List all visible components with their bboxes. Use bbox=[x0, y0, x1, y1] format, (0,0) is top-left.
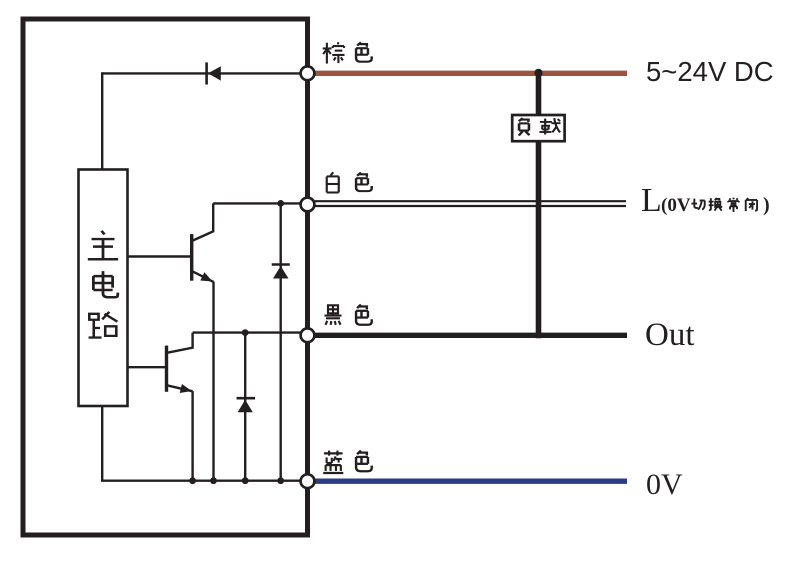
wire: Q1 collector to white terminal bbox=[213, 202, 302, 204]
net label 0V bbox=[646, 468, 683, 501]
label 黑色 (black) bbox=[325, 305, 372, 325]
wire: Q2 emitter column bbox=[191, 391, 193, 481]
label 主电路 (main circuit) bbox=[88, 231, 118, 338]
wire: main circuit to 0V bus bbox=[101, 406, 103, 481]
terminal: white bbox=[301, 198, 315, 212]
label 蓝色 (blue) bbox=[323, 451, 372, 473]
net label 5~24V DC bbox=[646, 56, 774, 87]
wire: Q2 base bbox=[128, 366, 166, 368]
node: bus junction Q1e bbox=[210, 477, 217, 484]
svg-text:(0V: (0V bbox=[661, 195, 691, 216]
wire: 0V bus bbox=[101, 480, 302, 482]
diode D2 bbox=[272, 265, 290, 279]
node: bus junction D3 bbox=[242, 477, 249, 484]
node: load tap on brown wire bbox=[534, 69, 542, 77]
wire: V+ down-leg to main circuit bbox=[101, 72, 103, 169]
wire: Q2 collector to black terminal bbox=[193, 331, 302, 333]
net label Out bbox=[645, 317, 695, 353]
wire: D3 column (black rail to 0V bus) bbox=[244, 333, 246, 481]
terminal: black bbox=[301, 328, 315, 342]
main circuit block U1 bbox=[79, 170, 128, 407]
svg-text:Out: Out bbox=[645, 317, 695, 353]
terminal: brown bbox=[301, 66, 315, 80]
white wire (L) double line bbox=[314, 201, 626, 206]
blue wire (0V) bbox=[314, 479, 627, 484]
wire: D2 column (white rail to 0V bus) bbox=[280, 203, 282, 480]
node: junction white rail / D2 column bbox=[277, 200, 284, 207]
wire: load branch (V+ to Out) bbox=[536, 73, 542, 339]
net label L (0V switch NC) bbox=[641, 182, 770, 219]
black wire (Out) bbox=[314, 333, 627, 338]
node: bus junction D2 bbox=[277, 477, 284, 484]
transistor Q2 (lower NPN) bbox=[167, 333, 193, 393]
wire: V+ feed rail (terminal to corner) bbox=[102, 72, 302, 74]
terminal: blue bbox=[301, 474, 315, 488]
svg-text:): ) bbox=[763, 194, 770, 216]
node: bus junction Q2e bbox=[189, 477, 196, 484]
label 白色 (white) bbox=[327, 172, 372, 192]
svg-text:5~24V DC: 5~24V DC bbox=[646, 56, 774, 87]
brown wire (5~24V DC) bbox=[314, 71, 627, 76]
node: junction black rail / D3 column bbox=[242, 329, 249, 336]
wire: Q1 base bbox=[128, 255, 191, 257]
svg-text:0V: 0V bbox=[646, 468, 683, 501]
load box bbox=[512, 115, 564, 141]
label 棕色 (brown) bbox=[323, 42, 372, 63]
transistor Q1 (upper NPN) bbox=[192, 203, 214, 282]
label 负载 (load) bbox=[519, 118, 561, 135]
wire: Q1 emitter column bbox=[212, 282, 214, 481]
sensor body outline bbox=[23, 19, 308, 535]
diode D1 (reverse protection on V+ rail) bbox=[207, 62, 221, 84]
diode D3 bbox=[237, 398, 255, 412]
svg-text:L: L bbox=[641, 182, 662, 219]
